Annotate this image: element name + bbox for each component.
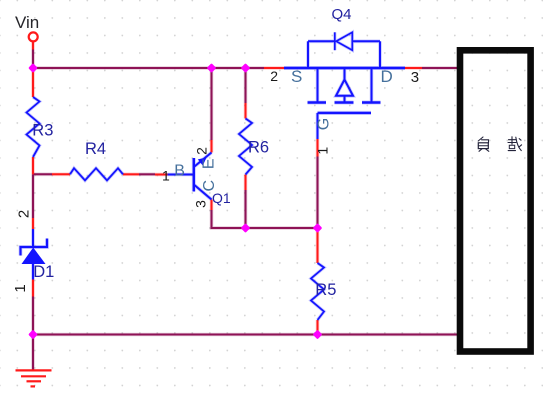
svg-text:Vin: Vin: [15, 13, 39, 32]
svg-text:E: E: [201, 158, 218, 169]
svg-text:Q4: Q4: [332, 6, 352, 23]
svg-text:3: 3: [411, 69, 419, 86]
svg-text:R3: R3: [32, 121, 53, 139]
svg-text:R6: R6: [248, 138, 269, 156]
svg-text:R4: R4: [85, 140, 106, 158]
svg-text:1: 1: [162, 168, 170, 184]
svg-text:D1: D1: [33, 263, 54, 281]
svg-text:1: 1: [315, 147, 331, 155]
svg-text:1: 1: [12, 284, 29, 292]
svg-text:3: 3: [192, 200, 208, 208]
svg-text:C: C: [201, 180, 218, 192]
svg-text:R5: R5: [315, 281, 336, 299]
svg-text:D: D: [381, 67, 393, 86]
svg-text:S: S: [291, 67, 302, 86]
svg-text:2: 2: [15, 210, 32, 218]
svg-text:B: B: [174, 163, 185, 180]
svg-text:2: 2: [193, 147, 209, 155]
svg-text:G: G: [316, 118, 333, 130]
svg-text:2: 2: [270, 68, 278, 84]
